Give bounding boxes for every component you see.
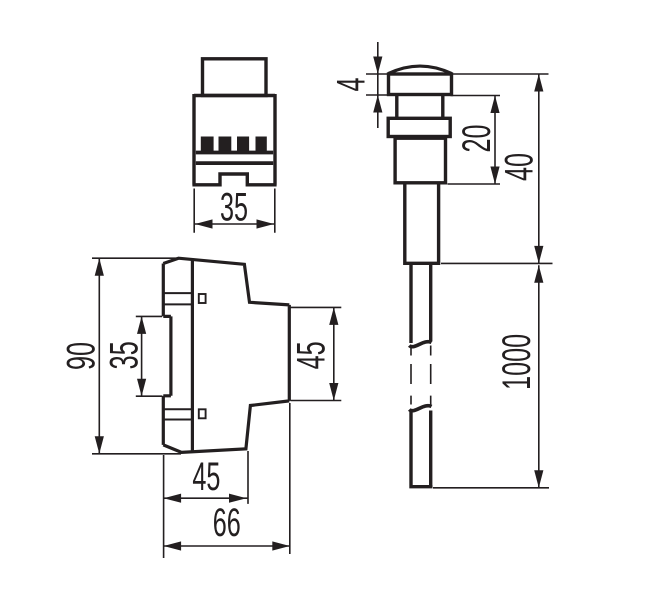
dimension 90 (overall height): extension lines xyxy=(92,258,181,454)
svg-text:1000: 1000 xyxy=(495,334,539,390)
svg-text:35: 35 xyxy=(103,341,147,369)
dimension 45 (bottom depth): extension lines xyxy=(164,451,248,558)
side view: lower horizontal band lines xyxy=(163,409,192,419)
dimension 45 (front face height): bottom arrow xyxy=(329,383,338,401)
probe: cable lower break stubs xyxy=(411,396,431,405)
side view: inner vertical line (front panel edge) xyxy=(191,259,194,452)
dimension 66 (total depth): right arrow xyxy=(272,541,290,550)
front view: terminal block 4 (filled) xyxy=(256,137,267,153)
front view: bar under terminals xyxy=(196,151,273,155)
dimension 20 (thread length): extension lines xyxy=(448,96,501,185)
dimension 40 (probe length): extension lines xyxy=(441,74,553,263)
probe: cable upper break stubs xyxy=(411,346,431,356)
side view: upper horizontal band lines xyxy=(163,293,192,304)
dimension 35 (front view width): right arrow xyxy=(257,219,275,228)
dimension 35 (rail recess): top arrow xyxy=(137,316,146,334)
dimension 45 (bottom depth): left arrow xyxy=(164,494,182,503)
dimension 4: dimension line with outside arrows xyxy=(377,42,379,128)
dimension 20: bottom arrow xyxy=(490,167,499,185)
probe: cable upper break wave xyxy=(409,342,431,347)
dimension 1000: dimension line xyxy=(538,265,540,488)
svg-text:45: 45 xyxy=(192,455,220,499)
probe: body rectangle xyxy=(395,138,445,183)
front view: lower horizontal bar xyxy=(196,161,273,165)
probe: cable lower break wave xyxy=(409,406,431,411)
dimension 1000: bottom arrow (pointing down) xyxy=(534,470,543,488)
dimension 35 (front view width): dimension line xyxy=(195,223,274,225)
dimension 45 (front face height): extension lines xyxy=(291,307,342,400)
svg-text:90: 90 xyxy=(60,342,104,370)
dimension 4: lower arrow (pointing up) xyxy=(373,95,382,113)
front view: terminal block 1 (filled) xyxy=(201,137,214,153)
probe: cable break dashes xyxy=(411,364,431,384)
dimension 45 (bottom depth): dimension line xyxy=(164,497,248,499)
probe: cable lower segment walls and bottom end xyxy=(409,411,432,487)
dimension 66 (total depth): left arrow xyxy=(164,541,182,550)
dimension 45 (front face height): top arrow xyxy=(329,307,338,325)
dimension 40: top arrow xyxy=(534,74,543,92)
dimension 20: top arrow xyxy=(490,96,499,114)
dimension 66 (total depth): extension line right xyxy=(289,403,291,554)
svg-text:40: 40 xyxy=(497,153,541,181)
dimension 1000 (cable length): extension line bottom xyxy=(433,487,549,489)
dimension 35 (front view width): left arrow xyxy=(195,219,213,228)
front view: main body outline with bottom DIN notch xyxy=(192,94,276,185)
svg-text:20: 20 xyxy=(455,124,499,152)
dimension 90: bottom arrow xyxy=(95,436,104,454)
svg-text:35: 35 xyxy=(220,185,248,229)
dimension 66 (total depth): dimension line xyxy=(164,545,290,547)
probe: nut rectangle xyxy=(388,118,450,136)
side view: small lower rectangle detail xyxy=(199,409,206,418)
dimension 4: upper arrow (pointing down) xyxy=(373,57,382,75)
dimension 90: top arrow xyxy=(95,258,104,276)
side view: outer profile outline xyxy=(163,258,289,452)
dimension 35 (rail recess): dimension line xyxy=(141,316,143,396)
probe: sheath tube walls and bottom xyxy=(403,185,440,264)
dimension 4 (flange height): extension lines xyxy=(366,74,387,95)
svg-text:4: 4 xyxy=(330,77,374,91)
side view: small upper rectangle detail xyxy=(199,294,206,303)
dimension 40: bottom arrow xyxy=(534,246,543,264)
dimension 35 (front view width): extension lines xyxy=(194,189,275,233)
probe: dome cap xyxy=(389,66,452,73)
dimension 40: dimension line xyxy=(538,74,540,263)
dimension 45 (bottom depth): right arrow xyxy=(229,494,247,503)
front view: terminal block 2 (filled) xyxy=(219,137,232,153)
svg-text:45: 45 xyxy=(290,341,334,369)
probe: cable upper segment walls xyxy=(411,265,431,343)
dimension 45 (front face height): dimension line xyxy=(333,307,335,400)
dimension 20: dimension line xyxy=(494,96,496,185)
probe: neck side walls xyxy=(397,96,443,117)
dimension 1000: top arrow (pointing up) xyxy=(534,265,543,283)
front view: terminal block 3 (filled) xyxy=(237,137,249,153)
svg-text:66: 66 xyxy=(213,501,241,545)
front view: top cap rectangle xyxy=(203,59,267,96)
dimension 35 (rail recess): bottom arrow xyxy=(137,379,146,397)
probe: flange rectangle xyxy=(389,74,452,95)
dimension 90: dimension line xyxy=(98,258,100,454)
dimension 35 (rail recess): extension lines xyxy=(136,316,162,396)
